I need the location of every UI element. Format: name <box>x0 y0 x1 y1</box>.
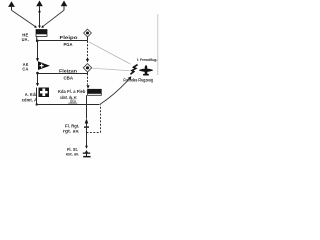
diamond D2 (plotting element) <box>83 64 91 74</box>
command box text <box>58 89 86 104</box>
svg-text:CA: CA <box>22 67 29 72</box>
command box outline (left and bottom edges) <box>36 88 100 106</box>
HQ plus-square symbol on command box <box>39 88 50 98</box>
faint observation line D1 to aircraft <box>89 42 131 65</box>
lightning flash symbol <box>130 65 137 75</box>
svg-text:PGA: PGA <box>64 42 74 47</box>
label Fl.Rgt / rgt.av <box>63 124 80 134</box>
node J1 junction dot <box>36 40 39 43</box>
svg-text:Fleizan: Fleizan <box>59 69 77 74</box>
Fl.St unit symbol (arrow on base) <box>83 150 91 157</box>
svg-text:Kda Fl. a Fleb: Kda Fl. a Fleb <box>58 89 86 94</box>
antenna A1 (left) <box>8 1 15 10</box>
enemy aircraft silhouette <box>139 65 153 75</box>
wire W2 (Fleizan line) <box>38 73 88 75</box>
svg-text:CBA: CBA <box>64 76 74 81</box>
wire flag F2 down through box <box>86 95 88 118</box>
svg-text:UA.: UA. <box>22 37 29 42</box>
svg-text:rgt. av.: rgt. av. <box>63 129 80 134</box>
receiver station flag symbol <box>36 30 47 37</box>
wire W1 (Fleipo line) <box>37 40 88 42</box>
wire Fl.Rgt down to Fl.St <box>86 124 88 147</box>
svg-text:f. Fremdflugz: f. Fremdflugz <box>137 57 158 62</box>
label A.Kda/cdmt.A (army command) <box>22 92 38 103</box>
pennant flag symbol (AK station) <box>38 61 50 70</box>
label AK/CA <box>22 62 29 72</box>
up arrow at Fl.Rgt level <box>84 118 89 127</box>
scan artifact right edge <box>157 14 159 75</box>
pole of receiver flag <box>36 36 38 40</box>
svg-text:A. Kda: A. Kda <box>25 92 38 97</box>
wire antenna A1 to receiver <box>12 10 37 28</box>
down arrowhead above Fl.St <box>85 146 88 149</box>
left column wire J1 down to pennant <box>36 41 39 62</box>
antenna A2 (middle) <box>36 1 43 29</box>
svg-text:cdmt. A: cdmt. A <box>22 98 37 103</box>
dashed link D2 down to flag F2 <box>86 74 89 89</box>
left column wire J2 down to command box <box>36 74 39 87</box>
svg-text:Fleipo: Fleipo <box>60 35 78 40</box>
arrow from box corner to enemy aircraft <box>99 76 131 105</box>
wire antenna A3 to receiver <box>41 10 63 28</box>
label HE/UA (radio intercept station) <box>22 32 29 42</box>
diamond D1 (plotting element) <box>84 29 92 40</box>
dashed bypass path Fl.Rgt to box corner <box>87 105 101 133</box>
underline under DCA <box>68 102 77 104</box>
svg-text:esc. av.: esc. av. <box>66 151 79 156</box>
faint observation line D2 to aircraft <box>92 68 130 71</box>
dashed link D1 to D2 <box>86 41 89 62</box>
svg-text:Fremdes Flugzeug: Fremdes Flugzeug <box>123 77 153 82</box>
antenna A3 (right) <box>61 1 68 11</box>
node J2 junction dot <box>36 72 39 75</box>
label Fl.St / esc.av <box>66 147 79 157</box>
flag F2 symbol (Kdo flag in box) <box>88 89 102 95</box>
